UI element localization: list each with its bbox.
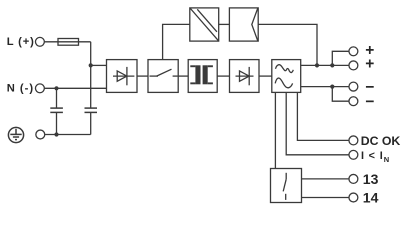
terminal +1 (349, 47, 358, 56)
wire C1 bottom lead (56, 112, 58, 134)
transformer winding symbol (190, 65, 213, 84)
svg-text:14: 14 (363, 190, 379, 206)
wire N from terminal to rectifier (45, 87, 107, 89)
wire relay to terminal 13 (302, 178, 349, 180)
relay box K1 (271, 169, 302, 203)
wire D2 to filter (259, 75, 272, 77)
wire box A to box B (219, 23, 230, 25)
wire L(+) from terminal through fuse to corner (45, 41, 91, 43)
wire filter to DC OK terminal (297, 92, 349, 140)
terminal PE (36, 130, 45, 139)
terminal 14 (349, 193, 358, 202)
wire L vertical down to capacitor C2 (90, 42, 92, 108)
wire filter to I<In terminal (286, 92, 349, 154)
wire box B to output bus (258, 24, 317, 65)
terminal N- (35, 84, 44, 93)
svg-text:N (-): N (-) (7, 83, 34, 95)
terminal +2 (349, 61, 358, 70)
earth ground symbol (8, 127, 23, 142)
terminal I<In (349, 150, 358, 159)
converter diagonal main (190, 9, 218, 41)
diode box D2 (230, 60, 260, 93)
diode symbol in D2 (236, 67, 254, 85)
wire + output from filter (301, 64, 349, 66)
ripple wave symbol top (276, 65, 294, 73)
wire T1 to diode D2 (217, 75, 229, 77)
node junction earth bus (54, 132, 58, 136)
transformer box T1 (188, 60, 217, 93)
svg-text:−: − (365, 94, 374, 111)
wire relay to terminal 14 (302, 197, 349, 199)
svg-text:13: 13 (363, 171, 379, 187)
svg-text:N: N (384, 155, 389, 164)
wire converter control from S1 top (163, 24, 190, 59)
sine wave symbol bottom (275, 78, 292, 88)
svg-text:+: + (365, 56, 374, 73)
wire U1 to switch S1 (137, 75, 148, 77)
wire - output from filter (301, 86, 349, 88)
svg-text:I: I (380, 150, 383, 162)
node junction L/rectifier (89, 63, 93, 67)
node junction N/C1 (54, 86, 58, 90)
terminal -2 (349, 97, 358, 106)
converter diagonal second (197, 9, 217, 32)
wire S1 to transformer T1 (178, 75, 188, 77)
wire earth bus (45, 134, 91, 136)
node junction converter/+ (315, 63, 319, 67)
terminal 13 (349, 174, 358, 183)
svg-text:<: < (369, 150, 375, 162)
chevron symbol in box B (252, 8, 258, 40)
capacitor C1 (50, 108, 63, 112)
svg-text:DC OK: DC OK (361, 134, 401, 148)
wire C1 top lead (56, 88, 58, 108)
capacitor C2 (85, 108, 98, 112)
terminal L+ (35, 37, 44, 46)
wire filter to relay K1 (274, 92, 276, 168)
svg-text:I: I (361, 150, 364, 162)
terminal -1 (349, 82, 358, 91)
wire C2 bottom lead (90, 112, 92, 134)
diode symbol in U1 (113, 67, 134, 85)
terminal DC OK (349, 136, 358, 145)
switch contact symbol in S1 (150, 69, 178, 76)
wire rectifier top input (91, 64, 107, 66)
node junction - branch (330, 85, 334, 89)
filter box U3 (272, 60, 301, 93)
rectifier box U1 (107, 60, 138, 93)
converter box B (229, 8, 258, 41)
svg-text:L (+): L (+) (7, 36, 35, 48)
fuse F1 (58, 39, 79, 46)
dc/dc converter box A (190, 8, 219, 41)
wire - branch down (332, 87, 349, 102)
relay contact symbol (283, 173, 286, 200)
switch box S1 (148, 60, 178, 93)
wire + branch up (332, 51, 349, 65)
node junction + branch (330, 63, 334, 67)
